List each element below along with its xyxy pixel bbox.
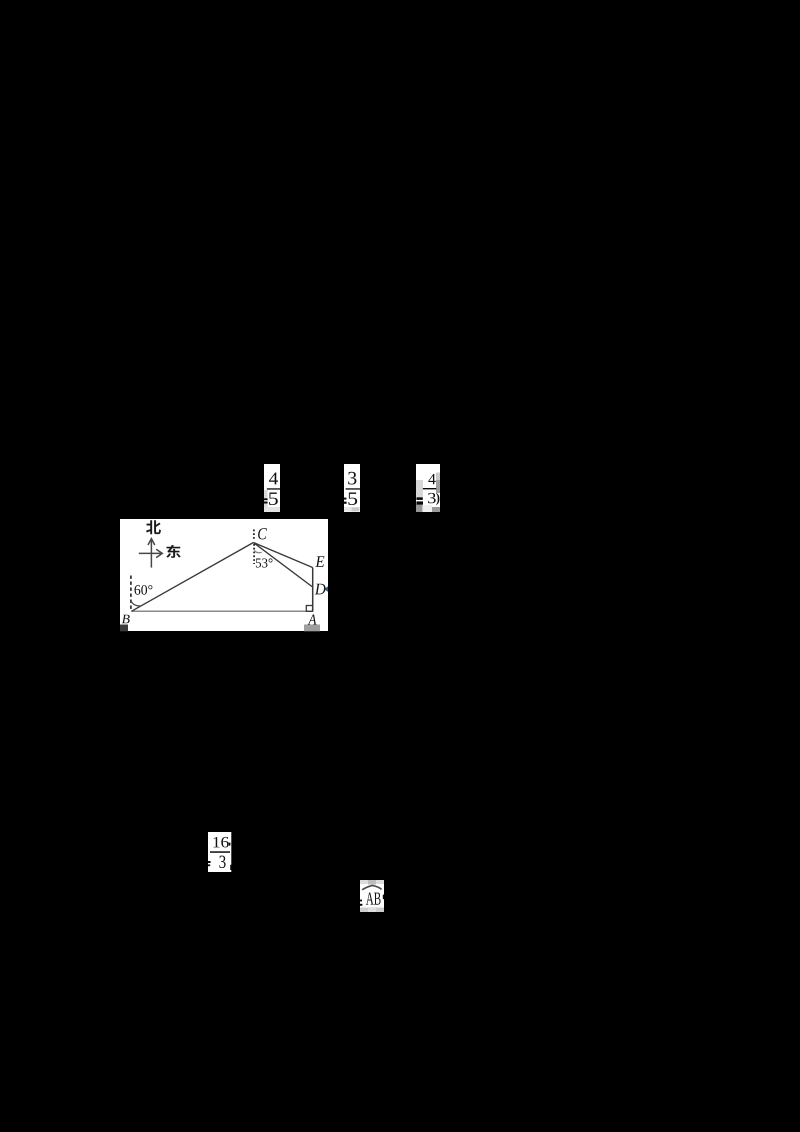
equation image box 4/5 bbox=[264, 464, 280, 512]
line BA (base) bbox=[131, 610, 312, 612]
small black marks right edge of 16/3 bbox=[229, 843, 232, 870]
dashed vertical line above B bbox=[130, 576, 132, 610]
fraction 4/3 denominator 3 bbox=[428, 493, 436, 503]
equation image box 4/3 with grey jpeg artifacts bbox=[416, 464, 440, 512]
closing parenthesis after 4/3 bbox=[436, 493, 439, 505]
label 60 degrees bbox=[134, 585, 152, 595]
fraction 4/3 numerator 4 bbox=[428, 474, 435, 484]
fraction 4/5 numerator 4 bbox=[269, 472, 278, 484]
text AB bbox=[366, 893, 381, 905]
fraction 16/3 numerator 16 bbox=[213, 837, 228, 848]
fraction 3/5 bar bbox=[346, 488, 360, 489]
label E bbox=[315, 556, 324, 567]
fraction 4/5 bar bbox=[267, 488, 280, 489]
equation image box 16/3 bbox=[208, 832, 231, 872]
label C bbox=[258, 528, 267, 539]
equals sign fragment left of 4/5 bbox=[264, 498, 268, 503]
fraction 4/5 denominator 5 bbox=[269, 493, 278, 505]
compass vertical arrow (north) bbox=[148, 539, 155, 568]
fraction 16/3 denominator 3 bbox=[219, 856, 225, 868]
fraction 3/5 denominator 5 bbox=[348, 493, 357, 505]
equals fragment left of 16/3 bbox=[208, 861, 211, 866]
right angle mark at A bbox=[306, 606, 312, 612]
line CD bbox=[253, 543, 312, 588]
blue marker right of D bbox=[324, 586, 328, 592]
label D bbox=[315, 584, 326, 595]
equals sign fragment left of 3/5 bbox=[344, 498, 347, 504]
dotted line above C bbox=[253, 530, 255, 541]
compass character dong (east) bbox=[166, 545, 180, 558]
frown arc over AB bbox=[362, 885, 381, 890]
equation image box arc AB bbox=[360, 880, 384, 912]
angle arc at C bbox=[254, 550, 261, 552]
fraction 3/5 numerator 3 bbox=[348, 472, 356, 485]
label B bbox=[122, 615, 130, 624]
grey selection handle below A bbox=[304, 625, 320, 632]
label A bbox=[308, 614, 317, 624]
label 53 degrees bbox=[256, 558, 273, 567]
angle arc at B bbox=[131, 601, 141, 606]
dotted line below C bbox=[253, 544, 255, 564]
compass horizontal arrow (east) bbox=[139, 549, 163, 557]
dark selection handle below B bbox=[120, 625, 128, 632]
line BC bbox=[131, 543, 253, 612]
equals sign blob left of 4/3 bbox=[416, 497, 423, 504]
equation image box 3/5 bbox=[344, 464, 360, 512]
diagram white background bbox=[120, 519, 328, 631]
line EA (vertical right side) bbox=[312, 568, 314, 612]
fraction 16/3 bar bbox=[210, 851, 230, 853]
compass character bei (north) bbox=[146, 520, 161, 534]
line CE bbox=[253, 543, 312, 568]
equals fragment left of AB bbox=[360, 895, 384, 906]
fraction 4/3 bar bbox=[423, 488, 436, 489]
